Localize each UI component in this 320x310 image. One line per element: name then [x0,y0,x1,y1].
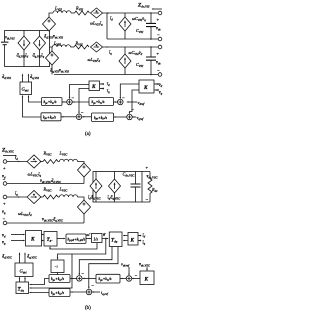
wire theta to T_dq2 [30,254,73,288]
svg-text:d̄d,VSC: d̄d,VSC [2,254,13,261]
label v_qref [137,115,145,121]
wire K_i out to sum cq [79,89,89,114]
block delay [51,260,64,273]
inductor L_VSC row1 [60,159,78,161]
wire [78,162,85,164]
wire v_dref [127,101,137,103]
svg-text:K: K [144,277,149,283]
wire bottom rail row2 (b) [7,222,84,224]
capacitor C_VSI row1 [146,13,156,39]
wire row2 (b) [7,196,28,198]
dependent source wL_VSC i_q (inline) [27,155,41,168]
label i_q [143,240,146,246]
block K (b row1 left) [26,231,42,247]
wire [58,196,60,198]
wire PI2 to T_dq2 [30,292,50,294]
block 1/s [92,234,103,243]
wire theta feedback to T_theta [50,243,97,249]
wire PI pll to 1/s [86,238,91,240]
label v_dc,VSC d_q,VSC [42,217,64,224]
label i_q row2 [109,50,112,56]
svg-text:−: − [3,217,6,222]
label + v_dc,VSC - [146,165,159,202]
block PI current d (k_p+k_i/s) [42,98,63,106]
block G_del [20,82,32,95]
svg-text:−: − [135,273,138,278]
block K voltage sensor [139,80,154,93]
wire bus to delay box [58,239,106,260]
block T_theta [44,232,57,247]
label i_q d_q,VSC [108,195,122,202]
wire K1r to T_dq1 (two arrows) [123,236,127,241]
svg-text:d̄q,VSI: d̄q,VSI [30,74,40,81]
label omega [87,232,92,237]
port terminals row1 [158,11,162,15]
label i_d [143,233,146,239]
label d_q,VSC (duty b) [27,254,38,261]
wire K_v input v_d [155,83,159,85]
dependent source wC_VSI v_d row2 [119,54,131,68]
wire row1 (b) [7,161,28,163]
wire sum vd to PI vd [114,101,118,103]
block T_dq1 [109,232,122,247]
wire sum vq to PI vq [114,116,127,118]
resistor R_VSI row2 [74,45,89,49]
wire [58,161,60,163]
svg-text:d̄q,VSIv̄dc,VSI: d̄q,VSIv̄dc,VSI [50,68,70,75]
svg-text:īqd̄q,VSC: īqd̄q,VSC [108,195,122,202]
dependent source d_q,VSI v_dc (row 2 series) [46,51,59,65]
svg-text:kpc+kic/s: kpc+kic/s [43,116,57,121]
wire v_dc down into K_dc [146,267,148,271]
svg-text:iq,ref: iq,ref [101,290,109,297]
wire row2 from box [50,46,53,48]
label d_d,VSI (duty) [2,74,12,81]
wire [78,197,85,200]
label v_dcref [121,262,130,268]
wire duty arrows up [23,75,29,83]
svg-text:(b): (b) [85,306,91,310]
wire [39,50,41,67]
Thevenin source box (a) [5,31,50,67]
svg-text:(a): (a) [85,132,91,137]
inductor L_VSI row2 [53,45,71,47]
label v_dc,VSC d_d,VSC [40,178,62,185]
label i_d [107,81,110,87]
label v_d input [2,233,6,239]
summing junction 1 (b) [77,276,83,282]
svg-text:d̄q,VSIīq: d̄q,VSIīq [33,53,45,60]
resistor R_VSC row1 [43,160,58,164]
block K (b row1 right) [128,233,138,246]
resistor R_VSI row1 [75,11,90,15]
svg-text:kp,pll+ki,pll/s: kp,pll+ki,pll/s [68,238,86,243]
svg-text:−: − [157,33,160,38]
summing junction current d [67,99,73,105]
summing junction 2 (b) [86,289,92,295]
wire [103,12,160,14]
label i_q [107,88,110,94]
wire sum2 to PI2 [70,291,86,293]
label i_qref [101,290,109,297]
wire K_v input v_q [155,89,159,91]
wire [23,31,25,37]
dependent source v_dc,VSC d_q,VSC (series) [78,200,91,214]
battery source E [1,42,8,45]
wire [39,31,41,37]
label v_q input [2,240,6,246]
wire K_i input i_q [100,88,103,90]
wire to R_dc [142,172,150,203]
summing junction voltage q [127,114,133,120]
svg-text:+: + [3,166,6,171]
summing junction dc [126,276,132,282]
dependent source d_d,VSI i_d [18,36,30,50]
svg-text:−: − [91,283,94,288]
capacitor C_VSI row2 [146,47,156,75]
svg-text:−: − [146,197,149,202]
wire 1/s to T_dq1 [102,238,108,240]
dependent source wC_VSI v_q row1 [119,17,131,31]
label d_q,VSI i_q [33,53,45,60]
label d_q,VSI (duty) [30,74,40,81]
caption (b) [85,306,91,310]
wire K to T_theta [42,235,44,241]
wire [71,46,75,48]
svg-text:īdd̄d,VSC: īdd̄d,VSC [88,195,102,202]
dependent source v_dc,VSC d_d,VSC (series) [78,163,91,177]
port + terminal q [3,195,7,199]
block PI pll [66,234,86,244]
wire [83,177,85,184]
port - terminal q [3,221,7,225]
wire [40,196,43,198]
label i_d d_d,VSC [88,195,102,202]
caption (a) [85,132,91,137]
dependent source wL_VSI i_q (row1 inline) [91,8,103,18]
block K_dc [140,271,154,285]
svg-text:K: K [143,85,148,91]
svg-text:v̄dc,VSC: v̄dc,VSC [139,262,151,269]
port terminals row2 [158,45,162,49]
wire sum1 to PI1 [70,277,77,279]
label i_q [15,191,18,197]
label d_d,VSI v_dc,VSI [44,34,64,41]
wire sum to PI cd [62,101,67,103]
capacitor C_dc,VSC [131,172,141,203]
svg-text:−: − [3,177,6,182]
resistor R_VSC row2 [43,195,58,199]
wire v_q into K [11,240,25,242]
wire PI vq out to sum [82,116,92,118]
wire [40,161,43,163]
label Z_th,VSC [1,148,15,155]
svg-text:+: + [157,51,160,56]
arrow Z_th,VSC [3,155,16,157]
port - terminal d [3,182,7,186]
wire K_dc to sum dc [132,278,140,280]
summing junction current q [76,114,82,120]
label d_d,VSI i_d [17,53,29,60]
label v_q [158,90,162,96]
dependent source d_q,VSI i_q [34,36,46,50]
wire T_dq2 to G_del [20,277,26,282]
wire K_v out to sum vd [120,84,139,99]
inductor L_VSI row1 [53,11,71,13]
wire [103,46,160,48]
wire junction down to sum2 [89,247,118,289]
svg-text:K: K [91,84,96,90]
label v_d port [2,174,6,180]
block PI voltage d [89,98,114,106]
wire v_qref [132,116,136,118]
svg-text:−: − [131,107,134,112]
block PI2 (b) [49,289,70,297]
block K current sensor [89,81,100,91]
wire PI1 to T_dq2 [30,279,50,285]
port + terminal d [3,160,7,164]
label v_dref [138,100,146,106]
label v_q port [2,209,6,215]
block PI current q [41,113,61,121]
svg-text:v̄dc,VSCd̄q,VSC: v̄dc,VSCd̄q,VSC [42,217,64,224]
block PI1 (b) [49,275,70,283]
svg-text:d̄q,VSC: d̄q,VSC [27,254,38,261]
svg-text:v̄dc,VSCd̄d,VSC: v̄dc,VSCd̄d,VSC [40,178,62,185]
dependent source i_d d_d,VSC [90,179,102,193]
wire left leg row1 [106,13,108,39]
label Z_dc,VSI [137,3,150,10]
wire bus to sum d [79,247,112,276]
wire K_i out to sum cd [70,85,90,99]
wire sum dc to PI v [120,278,126,280]
svg-text:Zdc,VSI: Zdc,VSI [137,3,150,10]
svg-text:Cdc,VSC: Cdc,VSC [123,172,136,179]
svg-text:K: K [30,237,35,243]
wire duty arrows up (b) [20,253,26,263]
svg-text:v̄th,VSI: v̄th,VSI [5,35,16,42]
wire [23,50,25,67]
label v_th,VSI [5,35,16,42]
label v_d [158,82,162,88]
svg-text:d̄d,VSIv̄dc,VSI: d̄d,VSIv̄dc,VSI [44,34,64,41]
wire [49,13,53,17]
wire [83,214,85,223]
svg-text:d̄d,VSIīd: d̄d,VSIīd [17,53,29,60]
svg-text:1/s: 1/s [94,237,99,241]
wire delay to PI1 [57,273,59,275]
label v_dc,VSC (b ctrl) [139,262,151,269]
wire PI vd out to sum [72,101,89,103]
svg-text:d̄d,VSI: d̄d,VSI [2,74,12,81]
svg-text:−: − [81,271,84,276]
wire i_q into K1r [138,240,140,242]
wire bottom rail row2 [54,74,160,76]
svg-text:+: + [3,201,6,206]
dependent source wL_VSC i_d (inline) [27,190,41,203]
svg-text:−: − [72,96,75,101]
arrow Z_dc,VSI [152,8,162,10]
wire T_theta to PI pll [57,238,65,240]
block PI voltage q [92,113,114,122]
label d_d,VSC (duty b) [2,254,13,261]
dependent source d_d,VSI v_dc (row 1 series) [43,17,56,31]
wire v_d into K [11,234,25,236]
block G_del (b) [15,263,33,277]
svg-text:−: − [157,68,160,73]
svg-text:v̄dc,VSC: v̄dc,VSC [146,174,158,181]
svg-text:Zth,VSC: Zth,VSC [1,148,15,155]
wire v_dcref down [128,267,130,275]
svg-text:K: K [130,238,135,244]
wire K_i input i_d [100,83,103,85]
svg-text:+: + [157,17,160,22]
label C_dc,VSC [123,172,136,179]
label theta [103,232,107,237]
wire bottom rail row1 [107,38,160,40]
DC-side box (b) [93,172,142,203]
svg-text:−: − [122,96,125,101]
label d_q,VSI v_dc,VSI [50,68,70,75]
inductor L_VSC row2 [60,195,78,197]
resistor R_dc (vertical) [148,179,152,194]
wire sum to PI cq [61,116,76,118]
dependent source i_q d_q,VSC [109,179,121,193]
wire i_d into K1r [138,235,140,237]
wire [71,12,75,14]
label i_d row1 [110,16,113,22]
block PI voltage (b) [96,274,120,283]
wire bottom rail row1 (b) [7,183,84,185]
wire PIv to sum1 [82,277,96,279]
wire into G_del from row B [23,96,42,118]
svg-text:−: − [81,110,84,115]
summing junction voltage d [118,99,124,105]
dependent source wL_VSI i_d (row2 inline) [91,42,103,52]
svg-text:+: + [146,165,149,170]
wire into G_del from row A [29,96,42,103]
wire K_v out to sum vq [130,90,140,114]
label i_d [15,155,18,161]
block T_dq2 [16,282,29,294]
wire i_qref [92,291,100,293]
